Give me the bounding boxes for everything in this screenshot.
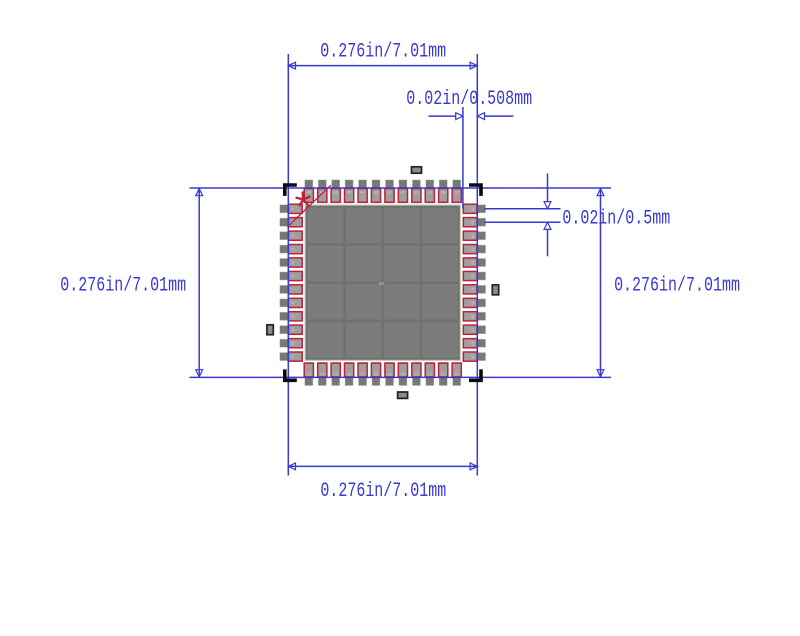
svg-text:14: 14 bbox=[320, 371, 325, 376]
svg-text:27: 27 bbox=[470, 327, 475, 332]
pad 6 (left) bbox=[280, 271, 304, 280]
svg-text:48: 48 bbox=[307, 190, 312, 195]
svg-text:24: 24 bbox=[454, 371, 459, 376]
pad 9 (left) bbox=[280, 312, 304, 321]
svg-text:44: 44 bbox=[360, 190, 365, 195]
orientation mark top bbox=[412, 167, 422, 173]
pin 1 corner chamfer line bbox=[287, 185, 331, 227]
svg-text:32: 32 bbox=[470, 260, 475, 265]
corner bracket bottom-left bbox=[285, 369, 297, 380]
pad 13 (bottom) bbox=[304, 362, 313, 386]
pad 25 (right) bbox=[463, 352, 486, 361]
svg-text:16: 16 bbox=[347, 371, 352, 376]
corner bracket bottom-right bbox=[469, 369, 481, 380]
svg-text:0.276in/7.01mm: 0.276in/7.01mm bbox=[320, 41, 446, 64]
svg-text:0.276in/7.01mm: 0.276in/7.01mm bbox=[60, 275, 186, 298]
pad 12 (left) bbox=[280, 352, 304, 361]
svg-text:42: 42 bbox=[387, 190, 392, 195]
svg-text:10: 10 bbox=[290, 327, 295, 332]
svg-text:0.02in/0.5mm: 0.02in/0.5mm bbox=[562, 208, 670, 231]
pad 18 (bottom) bbox=[371, 362, 380, 386]
svg-text:12: 12 bbox=[290, 354, 295, 359]
svg-text:37: 37 bbox=[454, 190, 459, 195]
svg-text:13: 13 bbox=[307, 371, 312, 376]
svg-text:49: 49 bbox=[379, 281, 385, 286]
svg-text:21: 21 bbox=[414, 371, 419, 376]
svg-text:38: 38 bbox=[441, 190, 446, 195]
pad 16 (bottom) bbox=[345, 362, 354, 386]
pad 23 (bottom) bbox=[439, 362, 448, 386]
pad 36 (right) bbox=[463, 204, 486, 213]
pad 37 (top) bbox=[452, 180, 461, 204]
corner bracket top-left bbox=[285, 185, 297, 196]
svg-text:17: 17 bbox=[360, 371, 365, 376]
svg-text:31: 31 bbox=[470, 274, 475, 279]
pad 35 (right) bbox=[463, 218, 486, 227]
pad 8 (left) bbox=[280, 298, 304, 307]
svg-text:43: 43 bbox=[374, 190, 379, 195]
top dimension 0.276in/7.01mm bbox=[288, 41, 477, 69]
svg-text:35: 35 bbox=[470, 220, 475, 225]
pad 28 (right) bbox=[463, 312, 486, 321]
pad 31 (right) bbox=[463, 271, 486, 280]
svg-text:22: 22 bbox=[428, 371, 433, 376]
pad 5 (left) bbox=[280, 258, 304, 267]
svg-text:25: 25 bbox=[470, 354, 475, 359]
pad 39 (top) bbox=[425, 180, 434, 204]
pad 40 (top) bbox=[412, 180, 421, 204]
svg-text:0.276in/7.01mm: 0.276in/7.01mm bbox=[320, 480, 446, 503]
pad 10 (left) bbox=[280, 325, 304, 334]
bottom dimension 0.276in/7.01mm bbox=[288, 463, 477, 503]
pad 27 (right) bbox=[463, 325, 486, 334]
pin 1 marker asterisk bbox=[296, 192, 309, 205]
svg-text:39: 39 bbox=[428, 190, 433, 195]
top pitch dimension 0.02in/0.508mm bbox=[406, 88, 532, 208]
pad 19 (bottom) bbox=[385, 362, 394, 386]
svg-text:20: 20 bbox=[401, 371, 406, 376]
pad 22 (bottom) bbox=[425, 362, 434, 386]
pad 15 (bottom) bbox=[331, 362, 340, 386]
svg-text:29: 29 bbox=[470, 301, 475, 306]
pad 42 (top) bbox=[385, 180, 394, 204]
svg-text:46: 46 bbox=[333, 190, 338, 195]
orientation mark left bbox=[267, 325, 273, 335]
pad 20 (bottom) bbox=[398, 362, 407, 386]
svg-text:19: 19 bbox=[387, 371, 392, 376]
pad 32 (right) bbox=[463, 258, 486, 267]
svg-text:41: 41 bbox=[401, 190, 406, 195]
pad 26 (right) bbox=[463, 339, 486, 348]
pad 43 (top) bbox=[371, 180, 380, 204]
dimension extension lines bbox=[190, 54, 612, 476]
pad 3 (left) bbox=[280, 231, 304, 240]
right dimension 0.276in/7.01mm bbox=[597, 188, 740, 377]
pad 7 (left) bbox=[280, 285, 304, 294]
svg-text:40: 40 bbox=[414, 190, 419, 195]
svg-text:0.02in/0.508mm: 0.02in/0.508mm bbox=[406, 88, 532, 111]
svg-text:45: 45 bbox=[347, 190, 352, 195]
corner bracket top-right bbox=[469, 185, 481, 196]
svg-text:0.276in/7.01mm: 0.276in/7.01mm bbox=[614, 275, 740, 298]
svg-text:30: 30 bbox=[470, 287, 475, 292]
pad 4 (left) bbox=[280, 245, 304, 254]
pad 34 (right) bbox=[463, 231, 486, 240]
orientation mark bottom bbox=[398, 392, 408, 398]
pad 47 (top) bbox=[318, 180, 327, 204]
pad 2 (left) bbox=[280, 218, 304, 227]
pad 14 (bottom) bbox=[318, 362, 327, 386]
pad 38 (top) bbox=[439, 180, 448, 204]
svg-text:34: 34 bbox=[470, 233, 475, 238]
thermal pad EP (pin 49) bbox=[305, 205, 460, 360]
pad 29 (right) bbox=[463, 298, 486, 307]
pad 24 (bottom) bbox=[452, 362, 461, 386]
svg-text:26: 26 bbox=[470, 341, 475, 346]
pad 11 (left) bbox=[280, 339, 304, 348]
svg-text:23: 23 bbox=[441, 371, 446, 376]
svg-text:36: 36 bbox=[470, 207, 475, 212]
svg-text:28: 28 bbox=[470, 314, 475, 319]
pad 21 (bottom) bbox=[412, 362, 421, 386]
svg-text:15: 15 bbox=[333, 371, 338, 376]
pad 1 (left) bbox=[280, 204, 304, 213]
pad 17 (bottom) bbox=[358, 362, 367, 386]
svg-text:18: 18 bbox=[374, 371, 379, 376]
right pitch dimension 0.02in/0.5mm bbox=[484, 174, 670, 257]
pad 41 (top) bbox=[398, 180, 407, 204]
orientation mark right bbox=[492, 285, 498, 295]
pad 48 (top) bbox=[304, 180, 313, 204]
pad 46 (top) bbox=[331, 180, 340, 204]
pad 44 (top) bbox=[358, 180, 367, 204]
pad 33 (right) bbox=[463, 245, 486, 254]
pad 30 (right) bbox=[463, 285, 486, 294]
svg-text:33: 33 bbox=[470, 247, 475, 252]
pad 45 (top) bbox=[345, 180, 354, 204]
left dimension 0.276in/7.01mm bbox=[60, 188, 202, 377]
